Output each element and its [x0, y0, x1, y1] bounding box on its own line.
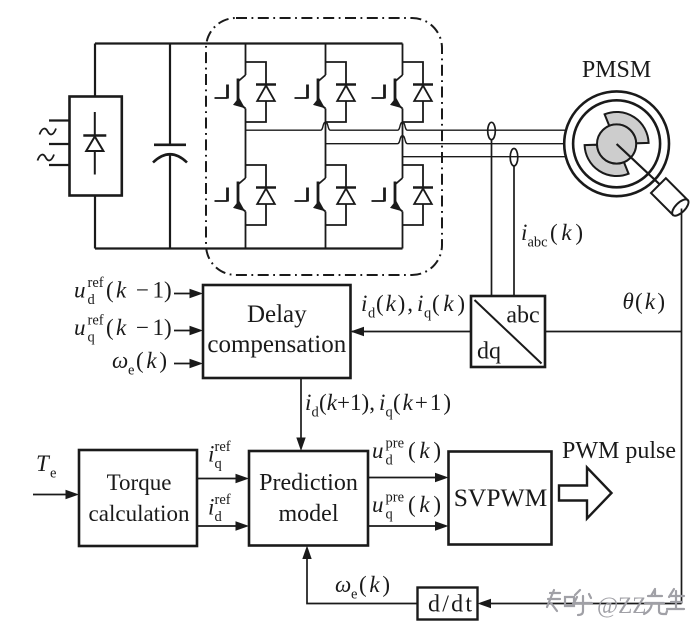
arrow i_d ref torque to prediction [197, 521, 249, 530]
arrow i_q ref torque to prediction [197, 474, 249, 483]
prediction model block [249, 451, 368, 546]
svg-text:e: e [50, 466, 56, 482]
rectifier diode [83, 112, 106, 175]
i_abc(k) label [521, 220, 583, 251]
svg-text:q: q [424, 306, 431, 322]
diode D4 (antiparallel leg B bot) [326, 165, 357, 225]
svg-text:pre: pre [386, 436, 405, 452]
wire phase B [326, 136, 568, 144]
PMSM stator inner circle [573, 100, 660, 187]
AC input stub 2 [49, 143, 70, 145]
svg-text:(k): (k) [432, 291, 465, 316]
svg-text:(k+1),: (k+1), [319, 390, 375, 415]
svg-text:T: T [36, 451, 51, 476]
svg-text:dq: dq [477, 339, 501, 365]
rotor magnet arc bottom [585, 145, 629, 176]
svg-text:d: d [368, 306, 376, 322]
arrow u_d ref into block [174, 289, 203, 298]
diode D6 (antiparallel leg C bot) [403, 165, 434, 225]
svg-text:Prediction: Prediction [259, 470, 358, 496]
svg-text:(k),: (k), [376, 291, 413, 316]
i_d(k), i_q(k) label [361, 291, 465, 322]
rotor magnet arc top [605, 112, 649, 143]
AC input stub 3 [49, 164, 70, 166]
diode D1 (antiparallel leg A top) [246, 62, 277, 122]
transistor Q3 (IGBT leg B top) [295, 75, 326, 109]
wire phase C [403, 156, 567, 158]
wire right vertical to d/dt [478, 599, 682, 608]
svg-text:i: i [208, 495, 214, 520]
svg-text:ref: ref [88, 275, 104, 291]
wire phase A [246, 122, 568, 130]
svg-text:(k): (k) [550, 220, 583, 245]
wire sensor 1 to abc/dq [491, 140, 493, 296]
svg-text:e: e [128, 363, 134, 379]
torque calculation block [79, 450, 197, 546]
current sensor 1 [488, 122, 496, 139]
PMSM stator outer circle [564, 91, 669, 196]
current sensor 2 [510, 149, 518, 166]
rotor core circle [597, 124, 636, 163]
svg-text:Torque: Torque [107, 470, 172, 495]
transistor Q1 (IGBT leg A top) [215, 75, 246, 109]
svg-text:i: i [379, 390, 385, 415]
svg-text:(k): (k) [408, 438, 441, 463]
svg-text:SVPWM: SVPWM [454, 483, 548, 512]
SVPWM block [449, 452, 552, 545]
svg-text:i: i [417, 291, 423, 316]
svg-text:(k): (k) [359, 572, 390, 597]
svg-text:pre: pre [386, 490, 405, 506]
svg-text:q: q [215, 456, 222, 472]
theta(k) label [623, 289, 666, 314]
arrow u_q ref into block [174, 326, 203, 335]
wire abc/dq to delay compensation [352, 331, 471, 333]
arrow T_e into torque block [33, 490, 79, 499]
abc/dq diagonal [475, 300, 542, 364]
svg-text:ref: ref [88, 313, 104, 329]
svg-text:d: d [386, 453, 394, 469]
svg-text:ref: ref [215, 439, 231, 455]
wire inverter leg B [325, 44, 327, 249]
svg-text:(k): (k) [635, 289, 665, 314]
svg-text:(k): (k) [136, 348, 167, 373]
AC tilde symbol 1 [40, 129, 57, 135]
svg-text:Delay: Delay [247, 301, 307, 328]
wire delay comp to prediction model [300, 378, 302, 440]
svg-text:(k): (k) [408, 492, 441, 517]
svg-text:q: q [88, 330, 95, 346]
T_e label [36, 451, 56, 482]
svg-text:u: u [74, 315, 86, 340]
u_d pre(k) label [372, 436, 441, 469]
u_d ref(k-1) label [74, 275, 172, 308]
motor shaft [617, 144, 663, 187]
svg-text:abc: abc [528, 235, 548, 251]
PWM pulse hollow arrow [559, 468, 612, 519]
svg-text:d: d [215, 509, 223, 525]
svg-text:i: i [521, 220, 527, 245]
svg-text:PMSM: PMSM [582, 57, 651, 83]
omega_e(k) feedback label [335, 572, 390, 603]
delay compensation block [203, 285, 351, 378]
svg-text:q: q [386, 507, 393, 523]
i_d(k+1), i_q(k+1) label [305, 390, 451, 421]
capacitor C1 bottom wire [169, 156, 171, 249]
svg-text:@ZZ: @ZZ [597, 593, 646, 618]
wire left DC leg upper [94, 44, 96, 97]
encoder body [651, 178, 691, 218]
svg-text:PWM pulse: PWM pulse [562, 438, 676, 464]
diode D3 (antiparallel leg B top) [326, 62, 357, 122]
AC tilde symbol 2 [38, 155, 55, 161]
diode D2 (antiparallel leg A bot) [246, 165, 277, 225]
svg-text:u: u [74, 278, 86, 303]
wire top DC bus rail [95, 42, 403, 44]
wire inverter leg C [402, 44, 404, 249]
svg-text:θ: θ [623, 289, 634, 314]
diode D5 (antiparallel leg C top) [403, 62, 434, 122]
svg-text:(k−1): (k−1) [106, 278, 172, 303]
svg-text:d/dt: d/dt [428, 592, 472, 618]
omega_e(k) input label [112, 348, 167, 379]
svg-text:ω: ω [335, 572, 351, 597]
wire sensor 2 to abc/dq [513, 166, 515, 296]
wire left DC leg lower [94, 196, 96, 249]
svg-text:i: i [305, 390, 311, 415]
arrow omega_e into block [174, 359, 203, 368]
svg-text:q: q [386, 405, 393, 421]
transistor Q4 (IGBT leg B bot) [295, 178, 326, 212]
arrow u_d pre to svpwm [368, 473, 449, 482]
transistor Q5 (IGBT leg C top) [372, 75, 403, 109]
d/dt block [418, 588, 478, 620]
wire inverter leg A [245, 44, 247, 249]
u_q ref(k-1) label [74, 313, 172, 346]
svg-text:ω: ω [112, 348, 128, 373]
i_q ref label [208, 439, 231, 472]
wire theta to abc/dq [545, 331, 682, 333]
transistor Q6 (IGBT leg C bot) [372, 178, 403, 212]
svg-text:i: i [361, 291, 367, 316]
svg-text:e: e [351, 587, 357, 603]
svg-text:d: d [88, 292, 96, 308]
arrow u_q pre to svpwm [368, 521, 449, 530]
svg-text:compensation: compensation [207, 331, 346, 358]
rectifier box [70, 97, 122, 196]
svg-text:i: i [208, 442, 214, 467]
capacitor C1 plates [153, 145, 187, 163]
AC input stub 1 [49, 119, 70, 121]
u_q pre(k) label [372, 490, 441, 523]
wire encoder to bottom [681, 209, 683, 604]
wire bottom DC bus rail [95, 247, 403, 249]
svg-text:ref: ref [215, 492, 231, 508]
transistor Q2 (IGBT leg A bot) [215, 178, 246, 212]
wire d/dt to prediction model (omega feedback) [302, 546, 417, 604]
svg-text:u: u [372, 492, 384, 517]
inverter dash-dot enclosure [206, 18, 442, 275]
svg-text:model: model [279, 501, 339, 527]
svg-text:calculation: calculation [89, 501, 190, 526]
svg-text:u: u [372, 438, 384, 463]
capacitor C1 top wire [169, 44, 171, 145]
abc/dq block [471, 296, 545, 367]
svg-text:(k−1): (k−1) [106, 315, 172, 340]
svg-text:abc: abc [506, 303, 539, 329]
watermark zhihu [547, 590, 592, 615]
i_d ref label [208, 492, 231, 525]
